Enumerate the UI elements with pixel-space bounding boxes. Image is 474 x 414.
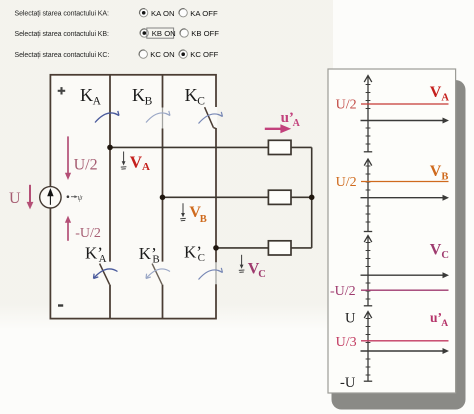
VC level line -U/2	[361, 289, 449, 291]
svg-text:KA OFF: KA OFF	[190, 9, 218, 18]
node B junction	[160, 195, 166, 201]
wire: node A to resistor RA	[110, 146, 268, 148]
switch K'A actuate arc	[94, 269, 118, 279]
radio KA OFF	[179, 9, 187, 17]
switch KC open blade	[205, 107, 214, 127]
panel shadow	[332, 80, 466, 410]
switch KB closed blade (light)	[162, 108, 164, 129]
switch K'B open blade	[152, 264, 162, 285]
arrow -U/2	[67, 222, 69, 241]
wire: phase B branch (upper, switch KB closed)	[162, 75, 164, 108]
VA axis vertical	[367, 77, 369, 152]
arrow U/2	[67, 136, 69, 174]
voltage source U	[40, 187, 61, 208]
panel card	[328, 69, 456, 393]
wire: RC to neutral bus	[291, 247, 312, 249]
svg-text:KA ON: KA ON	[151, 9, 175, 18]
measure arrow VB	[182, 203, 184, 214]
svg-text:V: V	[430, 163, 442, 180]
svg-text:B: B	[200, 214, 207, 225]
radio KA ON (selected)	[140, 9, 148, 17]
u'A time axis	[361, 350, 445, 352]
svg-text:U: U	[9, 190, 21, 207]
svg-text:V: V	[430, 241, 442, 258]
wire: RB to neutral bus	[291, 196, 312, 198]
svg-text:K: K	[132, 85, 145, 105]
VC time axis	[361, 274, 445, 276]
wire: phase C branch gap for open KC (right edge redrawn)	[215, 107, 217, 128]
radio KB OFF	[180, 29, 188, 37]
plus terminal label	[58, 90, 65, 92]
VB axis vertical	[367, 161, 369, 233]
svg-text:B: B	[441, 172, 448, 183]
switch KA actuate arc	[95, 113, 119, 123]
neutral bus junction	[309, 195, 315, 201]
radio KC ON	[139, 50, 147, 58]
svg-text:U/2: U/2	[336, 98, 357, 113]
u'A axis vertical	[367, 313, 369, 382]
radio KB ON (selected, focused)	[140, 29, 148, 37]
svg-text:KC OFF: KC OFF	[190, 50, 218, 59]
VB level line U/2	[361, 181, 449, 183]
svg-text:U/3: U/3	[336, 335, 357, 350]
wire: neutral bus	[311, 147, 313, 248]
svg-text:A: A	[99, 253, 107, 265]
source voltage arrow U	[29, 185, 31, 204]
switch KB actuate arc	[146, 113, 170, 123]
svg-text:A: A	[293, 118, 301, 129]
wire: phase A branch (upper, switch KA closed)	[109, 75, 111, 262]
svg-text:K: K	[185, 85, 198, 105]
svg-text:C: C	[197, 95, 205, 107]
svg-text:U/2: U/2	[74, 156, 98, 173]
svg-text:Selectați starea contactului K: Selectați starea contactului KB:	[15, 31, 109, 38]
svg-text:B: B	[152, 254, 159, 266]
output arrow u'A	[265, 128, 282, 130]
svg-text:U: U	[345, 311, 356, 327]
switch KC actuate arc	[199, 114, 223, 124]
measure arrow VA	[123, 152, 125, 163]
svg-text:A: A	[441, 319, 448, 329]
wire: phase A branch (lower stub below open K'A)	[109, 285, 111, 319]
resistor RC	[268, 241, 291, 255]
svg-text:KB OFF: KB OFF	[191, 29, 219, 38]
VA time axis	[361, 120, 445, 122]
node C junction	[213, 245, 219, 251]
circuit outer rectangle / bridge frame	[50, 75, 216, 319]
wire: phase B branch (lower stub below open K'B)	[162, 285, 164, 319]
wire: RA to neutral bus	[291, 146, 312, 148]
svg-text:KB ON: KB ON	[152, 29, 176, 38]
VB time axis	[361, 197, 445, 199]
wire: node B to resistor RB	[163, 196, 269, 198]
switch K'C actuate arc	[199, 270, 223, 280]
u'A level line U/3	[361, 340, 449, 342]
VA level line U/2	[361, 103, 449, 105]
reference potential marker	[67, 195, 70, 198]
switch K'B actuate arc	[146, 269, 170, 279]
svg-text:V: V	[430, 84, 442, 101]
svg-text:B: B	[145, 95, 153, 107]
svg-text:KC ON: KC ON	[150, 50, 174, 59]
resistor RB	[268, 190, 291, 204]
svg-text:Selectați starea contactului K: Selectați starea contactului KA:	[15, 11, 109, 18]
svg-text:-U/2: -U/2	[75, 226, 101, 241]
svg-text:V: V	[130, 152, 143, 171]
svg-text:C: C	[198, 252, 205, 264]
switch K'A open blade	[100, 264, 110, 285]
svg-text:U/2: U/2	[336, 175, 357, 190]
measure arrow VC	[241, 255, 243, 266]
svg-text:C: C	[441, 250, 449, 261]
svg-text:C: C	[258, 269, 266, 280]
VC axis vertical	[367, 237, 369, 306]
radio KC OFF (selected)	[179, 50, 187, 58]
svg-text:-U/2: -U/2	[330, 284, 356, 299]
minus terminal label	[58, 304, 63, 306]
node A junction	[107, 145, 113, 151]
resistor RA	[268, 140, 291, 154]
svg-text:Selectați starea contactului K: Selectați starea contactului KC:	[15, 52, 110, 59]
svg-text:A: A	[142, 161, 150, 173]
svg-text:K: K	[80, 85, 93, 105]
svg-text:A: A	[93, 95, 102, 107]
svg-text:A: A	[441, 93, 449, 104]
svg-text:-U: -U	[340, 375, 356, 391]
switch K'C closed blade (light)	[215, 263, 217, 285]
wire: node C to resistor RC	[216, 247, 268, 249]
